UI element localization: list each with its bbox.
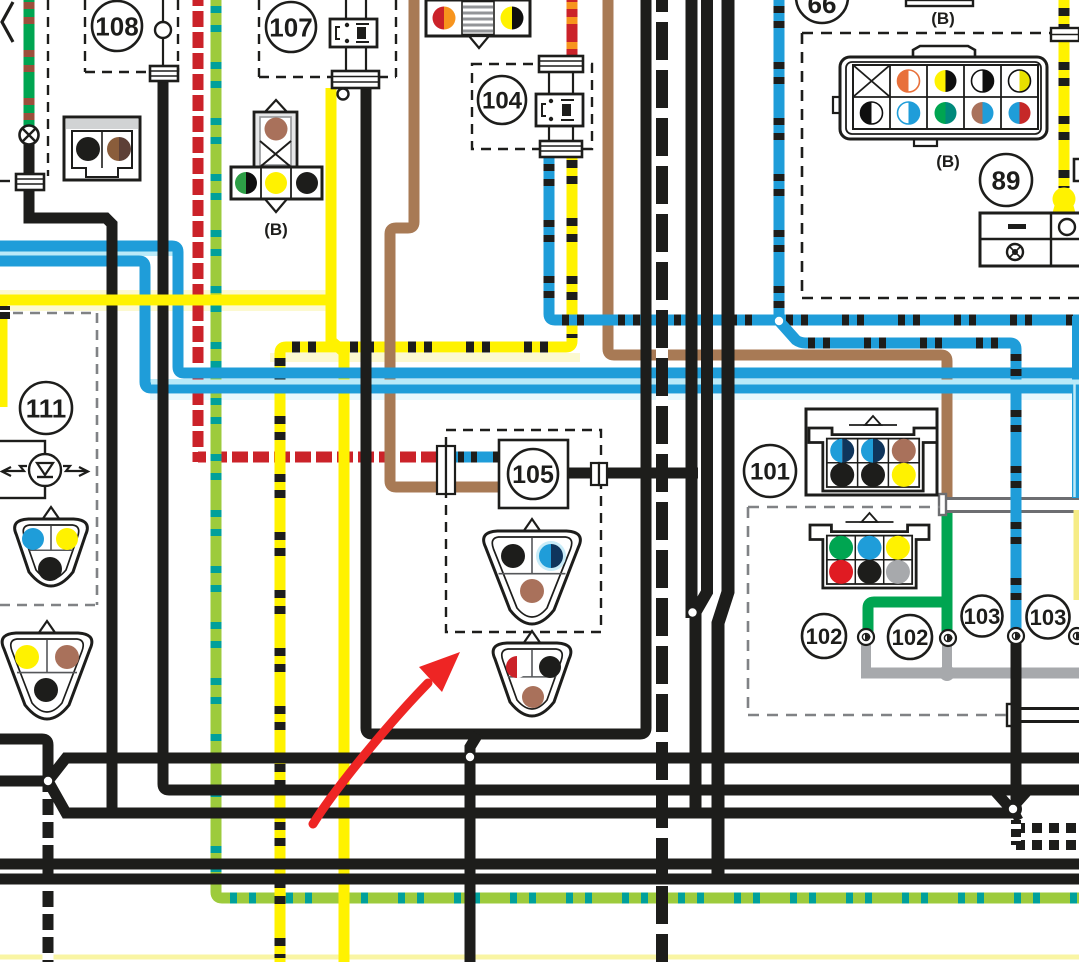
black dashes on yellow y347 xyxy=(292,342,560,353)
connector triangle 111-lower xyxy=(2,621,92,719)
inline bar on yellow x1064 xyxy=(1051,28,1079,41)
X terminal circle xyxy=(20,126,39,145)
wire black H2 left xyxy=(0,776,46,787)
label circle 105 xyxy=(508,449,558,499)
dashed box 105 xyxy=(446,430,601,632)
wire black H4 bevel+to funnel xyxy=(48,781,1013,813)
small connector left edge xyxy=(0,306,10,319)
dashed box 111 xyxy=(0,313,97,605)
H5 funnel dip xyxy=(994,790,1028,809)
connector 101 outer box xyxy=(806,409,937,495)
dashed box 107 xyxy=(259,0,396,77)
wire pale yellow bottom xyxy=(0,955,1079,960)
halo below yellow y300 xyxy=(0,306,333,311)
partial box above (B) top xyxy=(906,0,973,6)
junction dot (470,757) xyxy=(466,753,474,761)
partial glyph left edge xyxy=(2,2,13,42)
yellow taper to battery xyxy=(1053,202,1075,213)
svg-text:101: 101 xyxy=(750,459,790,486)
wire blue/black diagonal + y343 + down x1016 xyxy=(779,321,1016,632)
wire black x366 + H-A + x646 xyxy=(366,0,646,734)
bulb circle 108 wire xyxy=(155,22,171,38)
joint bullet 103a xyxy=(1008,628,1024,644)
connector big (B) 10-pin xyxy=(833,46,1047,146)
black dashes on blue vertical x549 xyxy=(544,164,555,310)
wire yellow/black from 104 xyxy=(280,156,572,962)
inline connector bar left xyxy=(16,174,44,190)
yellow terminal ball xyxy=(1053,188,1076,211)
wire black drop from H-A to bottom xyxy=(470,734,478,962)
label circle 107 xyxy=(266,2,316,52)
junction dot (692.5,612.5) xyxy=(688,608,696,616)
red arrow annotation xyxy=(313,652,460,824)
halo above yellow y300 xyxy=(0,290,333,295)
wire blue A xyxy=(0,246,1079,373)
white dashes y828 xyxy=(1025,823,1079,833)
halo below blue pair xyxy=(150,394,1079,400)
wire pale yellow stub right edge xyxy=(1074,510,1079,600)
wire brown left of 104 into 105 xyxy=(390,0,499,487)
connector bars + relay 104 xyxy=(536,56,583,157)
dashed box top-left right edge xyxy=(47,0,49,176)
diagonal to dashed stub xyxy=(1013,809,1019,820)
wire green/red vertical xyxy=(24,0,35,128)
svg-text:103: 103 xyxy=(964,604,1001,629)
red dashes on green wire xyxy=(24,2,35,128)
wire gray from joint 103 xyxy=(942,643,952,673)
connector (B) T-shape xyxy=(231,100,322,212)
light line on blue stub xyxy=(1073,380,1076,497)
white dashes on red wire xyxy=(193,6,204,452)
connector 102 6-pin xyxy=(810,513,929,588)
connector triangle 111-upper xyxy=(15,507,88,586)
svg-text:(B): (B) xyxy=(931,9,955,28)
inline connector double-bar at 105 right xyxy=(591,463,607,485)
relay box 107 xyxy=(330,0,377,71)
wire green vertical from joint pipe xyxy=(942,508,953,632)
connector triangle 105-lower xyxy=(493,631,571,716)
pipe wire lower right y715 xyxy=(1007,704,1079,726)
svg-text:102: 102 xyxy=(892,625,929,650)
gray junction blob xyxy=(939,665,955,681)
wire yellow stub left edge xyxy=(0,303,8,407)
joint bullet 103b xyxy=(1069,628,1079,644)
junction dot (1013,809) xyxy=(1009,805,1017,813)
joint bullet 102b xyxy=(940,630,956,646)
orange dashes xyxy=(567,2,578,58)
teal dashes horizontal xyxy=(230,893,1079,904)
wire black V2 down corner into H5 xyxy=(163,80,1079,790)
label circle 111 xyxy=(20,382,72,434)
inline connector double-bar at 105 left xyxy=(437,446,455,494)
halo between upper blue pair xyxy=(0,251,178,256)
battery box 89 xyxy=(980,213,1079,266)
lead thin above bulb 108 xyxy=(162,0,164,24)
svg-text:105: 105 xyxy=(512,461,554,489)
white dashes on x662 xyxy=(656,12,668,962)
wire red/white vertical xyxy=(193,0,204,462)
wire black x692 xyxy=(686,0,698,618)
wire blue B xyxy=(0,261,1079,388)
connector 101 6-pin xyxy=(809,416,937,491)
pipe wire upper right y505 xyxy=(939,494,1079,515)
box 105 xyxy=(499,440,568,508)
wire brown right, horizontal y355, down to joint xyxy=(608,0,947,499)
dashed box 104 xyxy=(472,64,592,149)
svg-text:107: 107 xyxy=(269,12,312,42)
label circle 101 xyxy=(744,445,796,497)
wire black x707 jog merge down to H4 xyxy=(696,0,708,814)
wire red/orange into 104 xyxy=(567,0,578,58)
black dashes on yellow x572 xyxy=(567,160,578,338)
dashed box top-left bottom edge xyxy=(0,180,16,182)
wire black H7 full xyxy=(0,874,1079,885)
black dashes on blue horizontal y320 xyxy=(562,315,1079,326)
svg-text:111: 111 xyxy=(26,393,67,423)
wire black from 105 box xyxy=(568,468,698,479)
label circle 102 left xyxy=(802,614,846,658)
svg-text:66: 66 xyxy=(808,0,837,19)
wire black H1 left + corner xyxy=(0,739,48,781)
wire black H3 bevel+full xyxy=(48,758,1079,781)
diode box 111 xyxy=(0,441,88,498)
wire black/white dashed y845 xyxy=(1016,840,1079,850)
wire yellow horizontal y300 over xyxy=(0,295,333,306)
wire blue/black short into 105 xyxy=(456,452,500,463)
wire gray from joint 102 xyxy=(861,641,871,673)
white dashes on x48 xyxy=(43,792,54,962)
wire blue stub right edge xyxy=(1072,316,1079,498)
dashed box top right big xyxy=(802,33,1079,298)
halo below yellow-dash y347 xyxy=(270,353,580,362)
wire black/white x48 xyxy=(43,786,54,962)
lead thin below bulb 108 xyxy=(162,38,164,68)
svg-text:104: 104 xyxy=(482,88,523,115)
dashes on short blue xyxy=(458,452,498,463)
wire gray horizontal xyxy=(861,668,1079,679)
black dashes on yellow x1064 xyxy=(1059,8,1070,188)
dashed box 101 group xyxy=(748,507,1009,715)
label circle 104 xyxy=(478,76,526,124)
black dashes on yellow x280 xyxy=(275,358,286,958)
wire black/white stub below funnel xyxy=(1011,820,1021,845)
wire blue/black vertical x779 xyxy=(774,0,785,321)
label circle 103 right xyxy=(1027,596,1070,639)
white dashes stub xyxy=(1011,824,1021,841)
svg-text:89: 89 xyxy=(992,165,1021,195)
wire black H6 full xyxy=(0,859,1079,870)
funnel junction blob xyxy=(1004,800,1022,818)
black dashes on blue y343 xyxy=(808,338,1006,349)
dashed box 108 xyxy=(85,0,178,72)
label circle 102 right xyxy=(888,615,932,659)
wire black below X-circle xyxy=(24,140,35,222)
wire black/white x662 xyxy=(656,0,668,962)
svg-text:108: 108 xyxy=(95,11,138,41)
junction dot (779,321) xyxy=(775,317,783,325)
svg-text:103: 103 xyxy=(1030,605,1067,630)
connector top middle xyxy=(426,0,530,48)
partial frame right edge xyxy=(1074,159,1079,181)
teal dashes vertical xyxy=(211,6,222,890)
white dashes on red horizontal xyxy=(206,452,440,463)
wire blue/black from 104 xyxy=(549,156,1079,320)
partial circle 66 top xyxy=(796,0,848,23)
label circle 89 xyxy=(980,154,1032,206)
white dashes y845 xyxy=(1025,840,1079,850)
wire yellow/black to battery xyxy=(1059,0,1070,190)
wire yellow vertical from 107 xyxy=(331,88,344,962)
light cyan gap between blue pair xyxy=(145,379,1079,385)
wire black/white dashed y828 xyxy=(1016,823,1079,833)
connector 2pin 108 xyxy=(64,117,140,180)
wire red/white horizontal to joint xyxy=(198,452,444,463)
joint bullet 102a xyxy=(858,629,874,645)
svg-text:102: 102 xyxy=(806,624,843,649)
wire black below blue x1016 to funnel xyxy=(1011,638,1022,810)
junction dot (48,781) xyxy=(44,777,52,785)
black dashes on blue x1016 xyxy=(1011,354,1022,626)
svg-text:(B): (B) xyxy=(264,220,288,239)
wire green/blue vertical+bottom horizontal xyxy=(216,0,1079,898)
wire black x728 jog down to H7 xyxy=(718,0,728,880)
black dashes on blue x779 xyxy=(774,6,785,314)
label circle 103 left xyxy=(962,596,1003,637)
small circle below bar 107 xyxy=(338,89,349,100)
label circle 108 xyxy=(92,1,142,51)
cyan gap over crossings xyxy=(151,380,1079,385)
inline connector bar 108 xyxy=(150,66,178,81)
wire black V1 elbow down to H4 xyxy=(29,212,112,814)
svg-text:(B): (B) xyxy=(936,152,960,171)
wire green elbow to junction xyxy=(868,602,947,636)
connector triangle 105-upper xyxy=(484,519,581,624)
inline connector bar 107 xyxy=(332,71,379,88)
